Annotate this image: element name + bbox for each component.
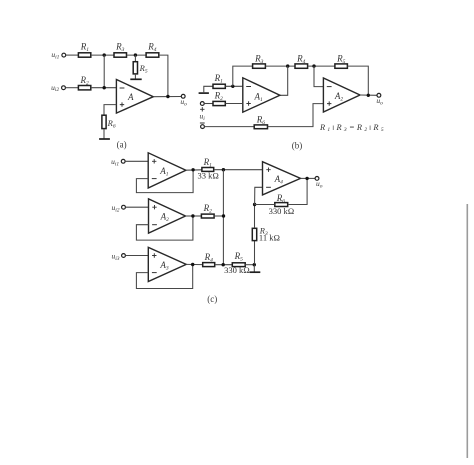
node bus top — [222, 168, 225, 171]
wire R3 to R4 — [127, 54, 147, 56]
wire output — [153, 96, 181, 98]
label ui (b) — [200, 111, 206, 123]
svg-text:(b): (b) — [292, 140, 303, 150]
node A2 output — [367, 94, 370, 97]
wire noninverting input to R6 — [104, 105, 116, 116]
label (a) — [117, 140, 127, 150]
op-amp A1 — [243, 78, 280, 112]
node A3 output (c) — [191, 263, 194, 266]
wire R6 to A4 output — [288, 178, 307, 204]
terminal ui2 (c) — [111, 203, 125, 214]
wire feedback loop A3 — [136, 264, 192, 288]
node sum junction top — [103, 53, 106, 56]
ground (c) — [250, 265, 261, 273]
wire A1 output — [186, 169, 202, 171]
resistor R1 — [78, 41, 90, 57]
svg-text:330 kΩ: 330 kΩ — [269, 206, 295, 216]
wire A2 output — [360, 94, 377, 96]
wire R4 to bus — [215, 264, 233, 266]
wire R2 to inverting input — [91, 87, 117, 89]
ground under R6 — [99, 138, 110, 140]
wire R5 to A2 output — [347, 66, 368, 95]
resistor R2 (c) — [201, 203, 214, 218]
wire A1 output riser — [280, 66, 288, 95]
terminal ui plus (b) — [200, 102, 204, 112]
wire R6 to A2 noninverting — [268, 104, 324, 127]
op-amp A4 (c) — [263, 162, 301, 195]
node A1 output feedback — [286, 64, 289, 67]
node A2 output (c) — [191, 214, 194, 217]
terminal uo (b) — [376, 93, 383, 106]
terminal uo (a) — [180, 94, 187, 107]
resistor R2 — [78, 75, 90, 90]
resistor R6 (b) — [254, 115, 267, 129]
wire node to A2 inverting input — [314, 66, 323, 87]
label balance condition — [319, 123, 386, 133]
svg-text:(c): (c) — [207, 294, 217, 304]
node output — [166, 95, 169, 98]
resistor R3 (c) 11k vertical — [252, 205, 280, 264]
wire R4 to output feedback — [159, 55, 168, 96]
wire summing bus vertical — [222, 170, 224, 265]
op-amp A3 (c) — [148, 247, 186, 281]
page margin rule (right edge) — [466, 204, 468, 458]
wire A3 output — [186, 263, 203, 265]
wire feedback riser to top rail — [233, 66, 253, 86]
wire R5 to ground node — [245, 264, 254, 266]
resistor R4 — [146, 41, 159, 57]
resistor R6 — [102, 115, 116, 129]
wire A2 output — [186, 215, 202, 217]
ground at R1 left — [199, 86, 213, 93]
node inverting input — [103, 86, 106, 89]
wire ui1 to A1 — [125, 160, 148, 162]
resistor R1 (c) 33k — [197, 157, 218, 181]
node A4 output — [305, 177, 308, 180]
resistor R4 (c) — [203, 252, 215, 267]
node inverting A1 — [231, 85, 234, 88]
op-amp A2 — [323, 78, 360, 112]
node inverting A2 top — [312, 64, 315, 67]
wire junction to A4 inverting input — [255, 187, 263, 204]
node A4 inverting junction — [253, 203, 256, 206]
terminal uo (c) — [315, 177, 323, 190]
label (c) — [207, 294, 217, 304]
node ground junction — [253, 263, 256, 266]
resistor R3 — [114, 41, 127, 57]
node A1 output (c) — [191, 168, 194, 171]
op-amp A1 (c) — [148, 153, 186, 188]
wire R6 to ground — [103, 129, 105, 139]
svg-text:33 kΩ: 33 kΩ — [197, 171, 218, 181]
node R5 tap — [134, 53, 137, 56]
svg-text:330 kΩ: 330 kΩ — [224, 265, 250, 275]
wire R6 left to junction — [255, 204, 275, 206]
wire ui2 to A2 — [125, 206, 148, 208]
wire ui2 to R2 — [65, 87, 78, 89]
svg-text:11 kΩ: 11 kΩ — [259, 233, 280, 243]
label (b) — [292, 140, 303, 150]
resistor R5 — [133, 55, 148, 79]
op-amp A2 (c) — [149, 199, 186, 233]
ground under R5 — [130, 78, 141, 80]
resistor R2 (b) — [213, 90, 225, 105]
resistor R1 (b) — [213, 73, 225, 88]
node bus bottom — [222, 263, 225, 266]
wire A4 output — [301, 177, 316, 179]
wire R1 to R3 — [91, 54, 114, 56]
node bus middle — [222, 214, 225, 217]
terminal ui2 — [51, 83, 65, 93]
op-amp A — [116, 80, 153, 114]
wire R1 to inverting input A1 — [225, 85, 243, 87]
wire vertical bus between summing nodes — [103, 55, 105, 88]
wire ui1 to R1 — [66, 54, 79, 56]
wire R4 to R5 — [308, 65, 335, 67]
terminal ui minus (b) — [201, 125, 205, 129]
wire R1 to A4 noninverting — [214, 169, 263, 171]
resistor R5 (b) — [335, 54, 348, 69]
wire ui to R2 — [204, 103, 213, 105]
terminal ui1 (c) — [111, 157, 125, 168]
wire R3 to R4 — [265, 65, 295, 67]
wire ui3 to A3 — [125, 255, 148, 257]
wire R2 to bus — [214, 215, 223, 217]
wire bottom rail to R6 — [204, 126, 254, 128]
wire R2 to noninverting A1 — [225, 103, 243, 105]
resistor R3 (b) — [253, 54, 266, 69]
svg-text:(a): (a) — [117, 140, 127, 150]
wire feedback loop A1 — [136, 170, 193, 192]
wire feedback loop A2 — [136, 216, 193, 240]
resistor R6 (c) 330k feedback — [269, 193, 295, 216]
terminal ui3 (c) — [111, 251, 125, 262]
resistor R5 (c) 330k — [224, 251, 250, 275]
svg-text:A: A — [127, 92, 134, 102]
resistor R4 (b) — [295, 54, 308, 69]
terminal ui1 — [51, 50, 65, 60]
